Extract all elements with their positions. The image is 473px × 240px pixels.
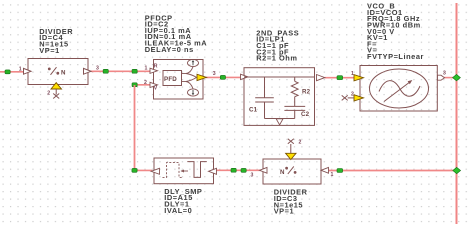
wire PFD pin2 stub	[135, 84, 151, 86]
delay input arrow	[209, 168, 217, 174]
node DLY_SMP in	[231, 168, 236, 172]
svg-text:2: 2	[144, 80, 147, 86]
pfdcp pin3 number	[213, 71, 216, 77]
divider C4 pin2 number	[47, 91, 50, 97]
svg-text:N: N	[61, 69, 66, 76]
svg-text:1: 1	[145, 66, 148, 72]
pfdcp pin3 yellow arrow	[197, 74, 207, 80]
delay solid pulse	[187, 162, 207, 178]
divider C3 N text	[280, 169, 285, 176]
divider C3 pin3 arrow	[260, 167, 268, 173]
divider C4 no-connect X	[53, 94, 59, 99]
divider C4 pin3 arrow	[84, 68, 92, 74]
wire filter out to VCO pin1	[325, 77, 356, 79]
svg-text:3: 3	[96, 66, 99, 72]
resistor R2	[291, 77, 298, 106]
divider C3 no-connect X	[288, 139, 294, 144]
svg-text:R2: R2	[302, 88, 311, 95]
pfdcp parameter text	[145, 13, 208, 54]
node C3 pin1	[337, 169, 343, 173]
vco ellipse	[370, 69, 429, 108]
node bottom right junction	[453, 167, 461, 173]
delay dashed pulse	[163, 163, 183, 178]
svg-text:PFD: PFD	[164, 76, 177, 83]
divider C4 pin2 stub	[55, 89, 57, 95]
svg-text:1: 1	[331, 172, 334, 178]
vco pin3 flag	[438, 75, 445, 80]
svg-text:R2=1 Ohm: R2=1 Ohm	[256, 54, 297, 63]
svg-text:3: 3	[213, 71, 216, 77]
svg-text:2: 2	[299, 139, 302, 145]
pfdcp pin1 arrow	[150, 68, 158, 73]
wire C4 output to PFD input R	[91, 70, 152, 72]
node VCO out junction	[453, 74, 461, 80]
vco pin1 yellow arrow	[354, 75, 364, 81]
svg-text:V: V	[154, 86, 158, 92]
svg-text:N: N	[280, 169, 285, 176]
vco parameter text	[367, 2, 424, 61]
svg-text:1: 1	[351, 71, 354, 77]
wire vertical feedback left	[134, 85, 136, 170]
wire PFD out to filter	[206, 76, 245, 78]
svg-text:R: R	[154, 64, 158, 70]
node PFD pin1	[132, 69, 137, 73]
divider C3 box	[263, 159, 321, 184]
filter LP1 box	[244, 68, 315, 126]
divider C4 divide-by-N glyph	[48, 67, 58, 75]
divider C3 pin1 arrow	[321, 167, 329, 173]
divider C3 pin2 number	[299, 139, 302, 145]
vco pin2 no-connect X	[342, 95, 354, 100]
svg-text:FVTYP=Linear: FVTYP=Linear	[367, 52, 424, 61]
divider C3 pin3 number	[251, 173, 254, 179]
filter parameter text	[256, 28, 299, 62]
vco sine wave	[379, 81, 420, 97]
wire divider C3 out	[244, 169, 262, 171]
wire DLY_SMP right	[216, 169, 261, 171]
divider C4 pin2 triangle	[51, 83, 62, 89]
divider C4 pin1 number	[19, 66, 22, 72]
divider C4	[28, 59, 88, 85]
divider C4 pin3 number	[96, 66, 99, 72]
delay arrow glyph	[181, 170, 189, 173]
node filter out	[337, 76, 343, 80]
delay output arrow	[151, 168, 160, 174]
divider C3 pin1 number	[331, 172, 334, 178]
svg-text:VP=1: VP=1	[274, 207, 295, 216]
divider C3 divide glyph	[286, 166, 296, 174]
wire VCO out	[443, 77, 457, 79]
vco pin2 yellow arrow	[354, 95, 364, 101]
node C4 pin3	[103, 69, 108, 73]
pfdcp inner PFD box	[163, 71, 182, 86]
capacitor C2	[284, 106, 305, 118]
divider C4 pin1 arrow	[24, 68, 32, 74]
filter internal bottom wire	[265, 118, 295, 120]
vco U2 box	[360, 66, 437, 112]
node input port	[5, 70, 10, 74]
vco pin3 number	[443, 71, 446, 77]
svg-text:IVAL=0: IVAL=0	[164, 206, 192, 215]
ground arrow	[276, 119, 283, 125]
pfdcp R label	[154, 64, 158, 70]
svg-text:C2: C2	[301, 111, 310, 118]
svg-text:3: 3	[251, 173, 254, 179]
capacitor C2 label	[301, 111, 310, 118]
wire to DLY_SMP output	[135, 169, 153, 171]
divider C3 parameter text	[274, 188, 308, 216]
filter output arrow	[317, 75, 325, 81]
vco pin1 number	[351, 71, 354, 77]
svg-text:3: 3	[443, 71, 446, 77]
pfdcp pin1 number	[145, 66, 148, 72]
filter internal top wire	[244, 76, 315, 78]
svg-text:2: 2	[351, 91, 354, 97]
pfdcp U1 box	[154, 60, 204, 100]
divider C4 N text	[61, 69, 66, 76]
node PFD pin3	[220, 75, 225, 79]
svg-text:C1: C1	[249, 107, 258, 114]
capacitor C1 label	[249, 107, 258, 114]
resistor R2 label	[302, 88, 311, 95]
pfdcp current source down	[188, 89, 199, 96]
node PFD pin2	[132, 83, 137, 87]
svg-text:DELAY=0 ns: DELAY=0 ns	[145, 45, 194, 54]
divider C4 parameter text	[39, 27, 73, 55]
delay A15 box	[154, 158, 214, 184]
divider C3 pin2 triangle	[286, 153, 296, 159]
wire input to divider C4	[0, 71, 24, 73]
wire C3 input from right	[328, 170, 457, 172]
delay parameter text	[164, 187, 202, 215]
divider C3 pin2 stub	[290, 144, 292, 153]
wire vertical right	[456, 3, 458, 224]
pfdcp switch wiring	[182, 67, 197, 89]
vco tuning arrow	[384, 80, 412, 102]
pfdcp V label	[154, 86, 158, 92]
filter input arrow	[241, 74, 249, 79]
node feedback corner	[132, 168, 137, 172]
svg-text:VP=1: VP=1	[39, 46, 60, 55]
pfdcp current source up	[188, 59, 199, 66]
vco pin2 number	[351, 91, 354, 97]
node C3 pin3	[241, 168, 246, 172]
pfdcp pin2 number	[144, 80, 147, 86]
pfdcp pin2 arrow	[150, 82, 158, 87]
svg-text:1: 1	[19, 66, 22, 72]
svg-text:2: 2	[47, 91, 50, 97]
capacitor C1	[255, 77, 274, 119]
